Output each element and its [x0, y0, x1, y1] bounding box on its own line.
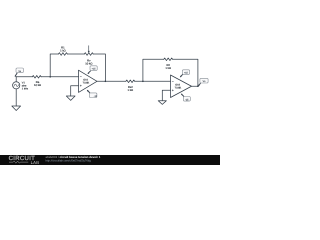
- flag box OA1 V+: [90, 66, 97, 71]
- op-amp OA1 plus sign: [80, 85, 81, 86]
- wire OA1 output to node B: [97, 80, 105, 82]
- node C junction dot: [142, 80, 144, 82]
- node A junction dot: [49, 76, 51, 78]
- flag tail OA1 V-: [87, 90, 90, 93]
- op-amp OA2 triangle: [171, 75, 192, 98]
- ground G3 (op-amp OA2): [158, 101, 166, 105]
- flag box Vin: [16, 68, 23, 73]
- wire OA1 + input to ground: [71, 86, 79, 96]
- wire V1 bottom to ground: [15, 89, 17, 106]
- flag box OA1 V-: [89, 93, 98, 98]
- svg-text:1 kHz: 1 kHz: [22, 88, 29, 91]
- svg-text:1 kΩ: 1 kΩ: [60, 49, 66, 52]
- wire node B to Rx2: [105, 80, 126, 82]
- svg-text:TL081: TL081: [83, 82, 90, 85]
- flag tail OA2 V+: [180, 74, 183, 77]
- node B junction dot: [105, 80, 107, 82]
- flag box OA2 V-: [183, 97, 190, 102]
- footer logo zigzag: [9, 161, 28, 163]
- sine symbol inside V1: [14, 84, 19, 86]
- flag tail OA2 V-: [181, 94, 184, 97]
- svg-text:10 kΩ: 10 kΩ: [85, 63, 92, 66]
- flag tail Vout: [198, 83, 201, 86]
- wire riser node C up to R2 feedback path: [143, 59, 164, 81]
- resistor R2: [164, 58, 173, 61]
- op-amp OA2 minus sign: [172, 80, 173, 82]
- flag tail for input flag: [15, 73, 18, 77]
- node D junction dot: [197, 85, 199, 87]
- ground G1 (source): [12, 106, 21, 111]
- flag box OA2 V+: [182, 70, 189, 75]
- resistor R1: [59, 53, 68, 56]
- op-amp OA1 minus sign: [80, 76, 81, 78]
- potentiometer Rv wiper arrowhead: [88, 51, 90, 53]
- voltage source V1: [13, 82, 20, 89]
- svg-text:1 kΩ: 1 kΩ: [165, 67, 171, 70]
- flag box Vout: [200, 78, 208, 83]
- wire node C to op-amp OA2 inverting input: [143, 80, 171, 82]
- wire OA2 + input to ground: [162, 90, 170, 100]
- labels: [22, 46, 182, 92]
- wire R1 to potentiometer Rv: [67, 53, 84, 55]
- svg-text:http://circuitlab.com/c/5e57na: http://circuitlab.com/c/5e57na55y76dg: [46, 160, 92, 163]
- svg-text:LAB: LAB: [31, 160, 40, 165]
- resistor Rx2: [126, 80, 135, 83]
- op-amp OA2 plus sign: [172, 90, 173, 91]
- svg-text:1 kΩ: 1 kΩ: [127, 89, 133, 92]
- footer bar: [0, 155, 220, 165]
- wire node A to op-amp OA1 inverting input: [50, 76, 78, 78]
- potentiometer Rv body: [84, 53, 93, 56]
- potentiometer Rv wiper: [88, 46, 90, 52]
- wire Ra to node A: [41, 76, 50, 78]
- ground G2 (op-amp OA1): [66, 96, 75, 100]
- flag tail OA1 V+: [88, 71, 91, 74]
- svg-text:TL081: TL081: [175, 87, 182, 90]
- wire Rv to corner, down to OA1 output node: [93, 54, 105, 81]
- wire OA2 output to node D: [192, 85, 198, 87]
- wire node to Ra: [16, 76, 32, 78]
- wire riser node A up to feedback path: [50, 54, 58, 77]
- wire V1 top to node: [15, 77, 17, 82]
- svg-text:10 kΩ: 10 kΩ: [34, 84, 41, 87]
- resistor Ra: [32, 76, 41, 79]
- wire Rx2 to node C: [135, 80, 143, 82]
- svg-text:abidz001 / circuit basse tensi: abidz001 / circuit basse tension devoir …: [46, 155, 101, 159]
- wire R2 to corner, down to output node D: [173, 59, 198, 86]
- op-amp OA1 triangle: [79, 70, 98, 92]
